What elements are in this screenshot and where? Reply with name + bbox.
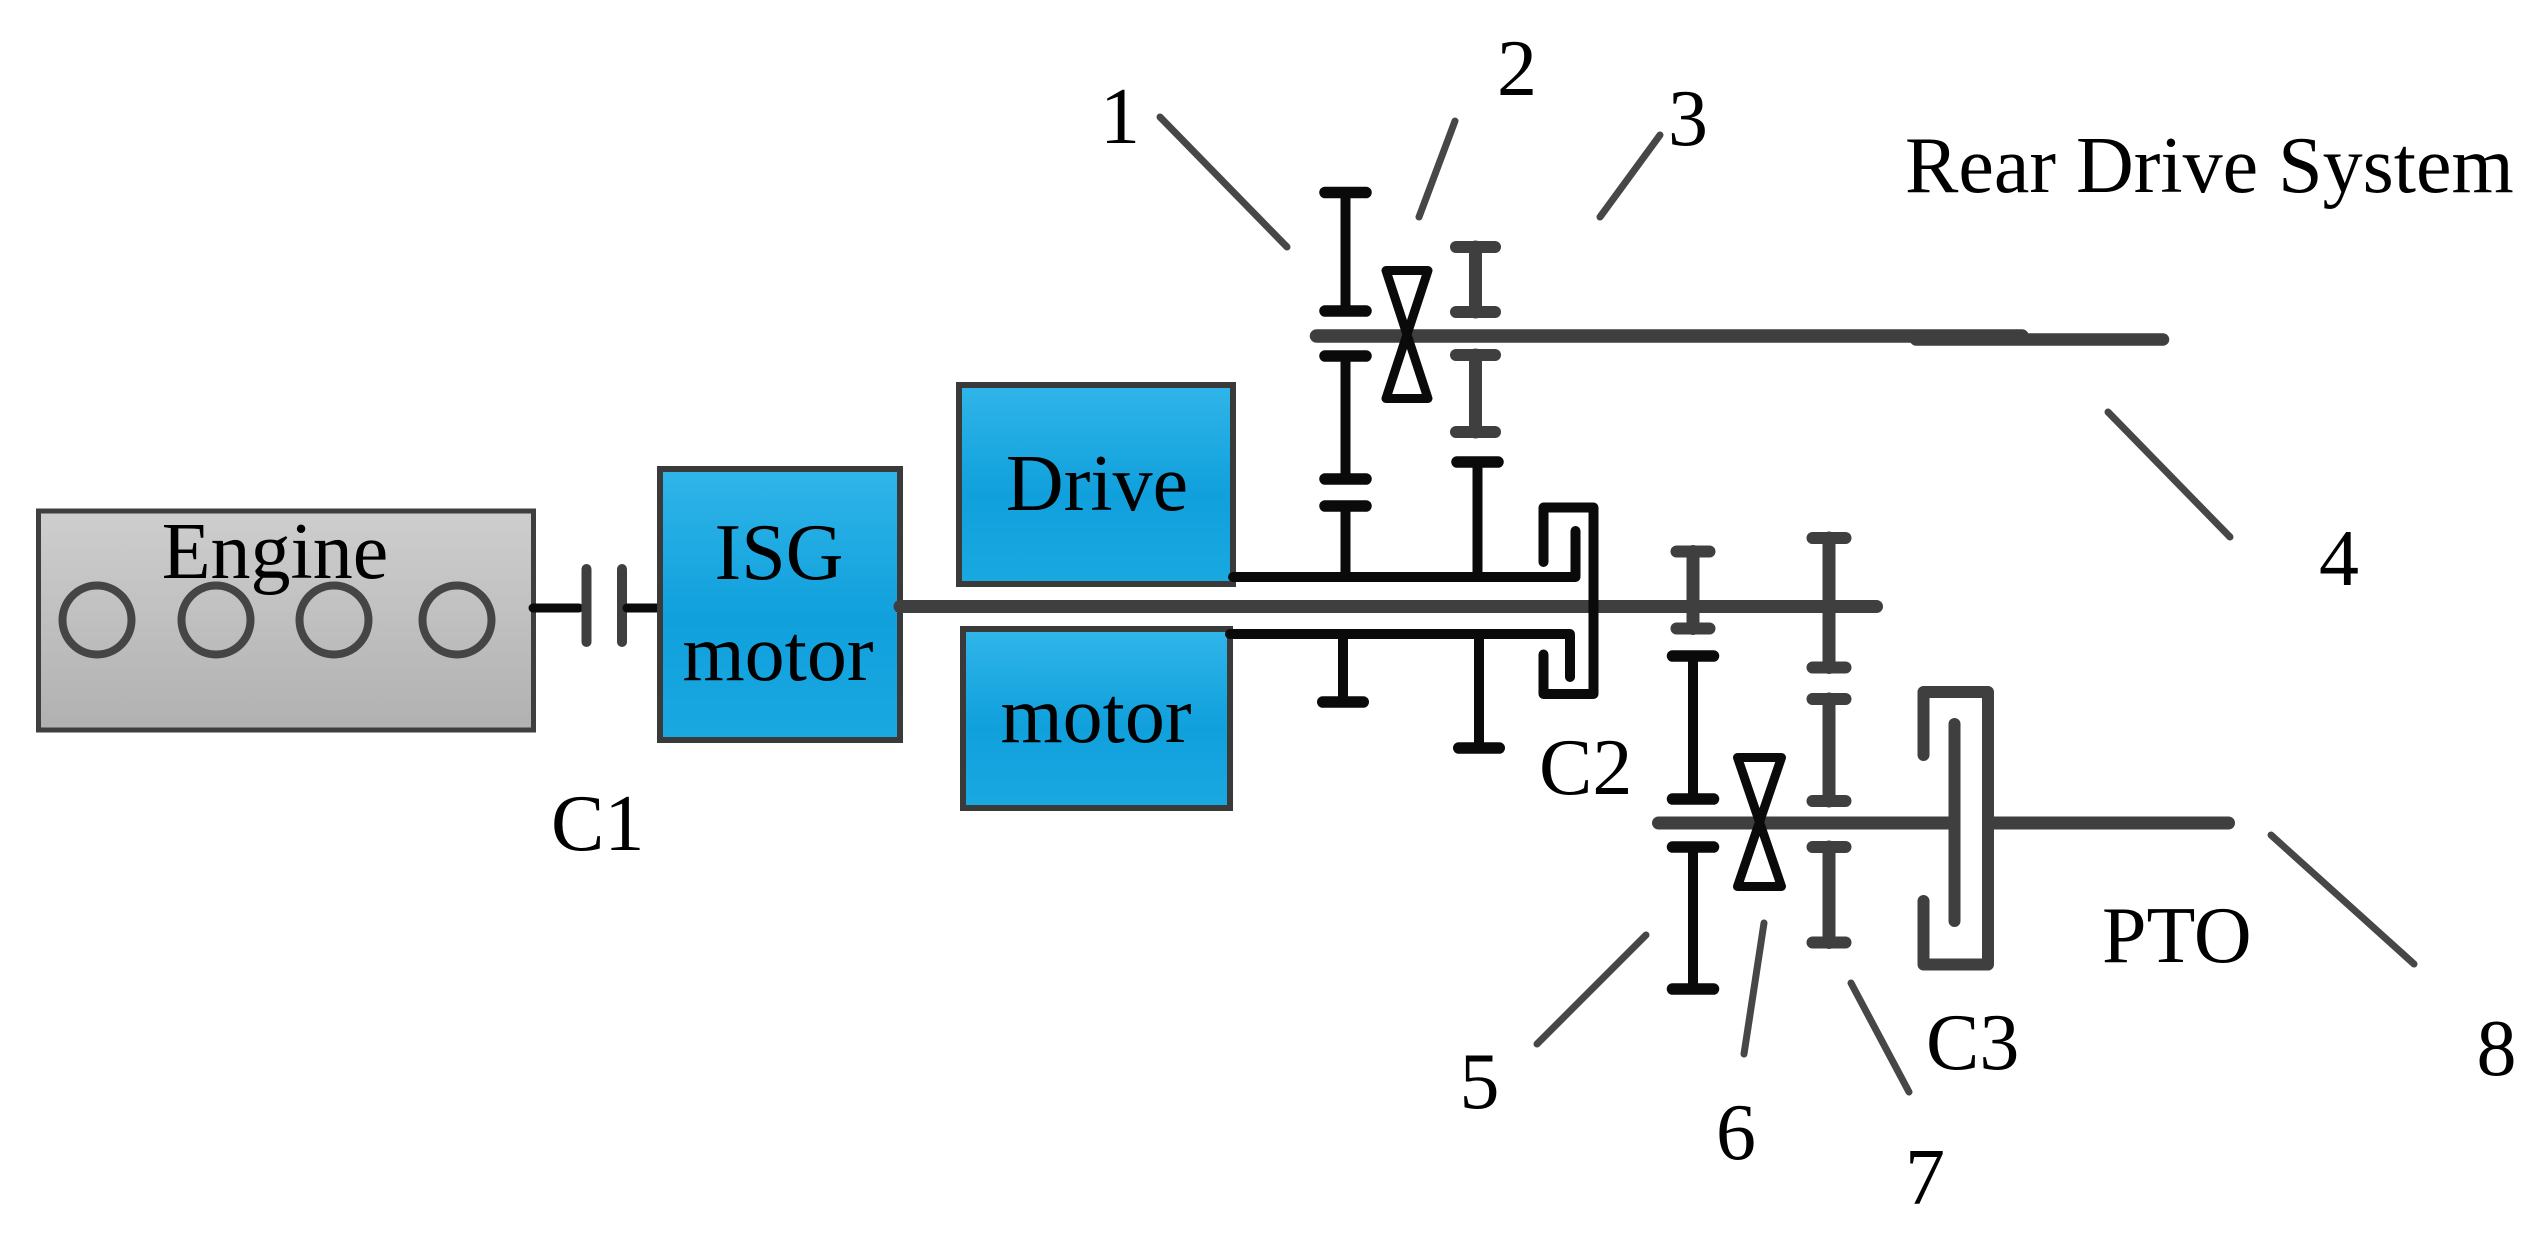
clutch C2 hub lower lip [1565,636,1575,677]
clutch C1 left plate [582,569,592,642]
svg-text:2: 2 [1497,25,1537,113]
svg-text:7: 7 [1905,1134,1945,1222]
svg-text:motor: motor [682,610,873,698]
svg-text:3: 3 [1668,75,1708,163]
gear hub on hollow shaft right [1457,462,1498,577]
svg-text:C1: C1 [551,780,644,868]
gear 5 lower half [1673,847,1714,989]
gear 7 counter lower half [1813,847,1846,943]
synchronizer 2 bowtie [1386,271,1428,399]
gear 7 counter upper half [1813,699,1846,801]
clutch C3 hub plate [1949,724,1961,921]
svg-text:5: 5 [1460,1038,1500,1126]
clutch C2 drum bracket [1544,508,1594,695]
main input shaft [900,600,1877,613]
svg-text:Rear Drive System: Rear Drive System [1905,122,2514,210]
leader line 7 [1851,983,1909,1092]
engine cylinder 3 [300,586,369,655]
PTO shaft right segment [1992,817,2229,830]
svg-text:Engine: Engine [162,508,389,596]
drive motor stator box [959,385,1233,584]
leader line 3 [1600,135,1660,217]
rear drive output shaft right segment [1916,333,2163,346]
gear 3 upper half [1456,247,1495,312]
leader line 2 [1419,121,1455,217]
svg-text:4: 4 [2319,515,2359,603]
leader line 8 [2271,835,2414,964]
gear 1 upper half [1325,193,1366,312]
gear hub on hollow shaft left [1325,506,1366,577]
svg-text:Drive: Drive [1006,440,1188,528]
hollow shaft top wall [1233,572,1576,582]
gear 4 on main shaft [1677,552,1710,629]
svg-text:C3: C3 [1926,999,2019,1087]
leader line 4 [2108,412,2230,537]
svg-text:1: 1 [1100,73,1140,161]
hollow shaft bottom wall [1230,629,1570,639]
gear 3 lower half [1456,355,1495,432]
engine cylinder 2 [182,586,251,655]
synchronizer 6 bowtie [1738,758,1782,887]
ISG motor box [660,469,900,740]
leader line 6 [1744,923,1764,1054]
gear 1 lower half [1325,356,1366,479]
rear drive output shaft [1317,329,2023,343]
svg-text:motor: motor [1000,672,1191,760]
clutch C1 right plate [617,569,627,642]
PTO shaft left segment [1659,817,1950,830]
engine cylinder 4 [423,586,492,655]
svg-text:ISG: ISG [715,509,844,597]
lower gear stem left below hollow shaft [1323,634,1364,702]
clutch C3 drum bracket [1924,692,1989,965]
lower gear stem right below hollow shaft [1459,634,1500,748]
leader line 5 [1537,935,1646,1044]
svg-text:8: 8 [2477,1005,2517,1093]
svg-text:C2: C2 [1539,724,1632,812]
leader line 1 [1160,117,1287,247]
clutch C2 hub upper lip [1571,531,1581,575]
engine block [39,511,534,730]
engine cylinder 1 [63,586,132,655]
svg-text:PTO: PTO [2102,892,2252,980]
wire clutch C1 to ISG motor [627,604,659,613]
gear 5 upper half [1673,656,1714,799]
drive motor rotor box [963,629,1230,808]
svg-text:6: 6 [1716,1089,1756,1177]
gear 7 on main shaft [1813,538,1846,668]
wire engine output to clutch C1 [533,604,579,613]
